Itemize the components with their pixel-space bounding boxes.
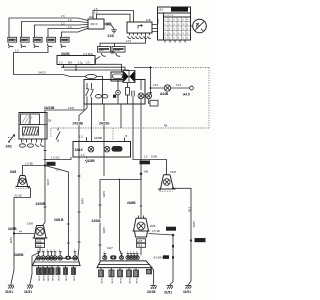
bulb B2 — [133, 216, 156, 238]
svg-text:4.5 SB: 4.5 SB — [152, 229, 160, 233]
auxiliary switch right of dimmer — [48, 119, 60, 143]
strip B dark pill bulb — [110, 255, 116, 259]
svg-text:24/2: 24/2 — [6, 145, 12, 149]
svg-text:31/51: 31/51 — [5, 290, 13, 294]
svg-text:24/5B: 24/5B — [8, 227, 17, 231]
svg-text:8: 8 — [174, 24, 175, 26]
wire from connector 3 to switch module pins — [35, 25, 89, 38]
svg-text:8: 8 — [183, 33, 184, 35]
svg-text:31/8B: 31/8B — [128, 278, 130, 284]
strip A bulb 3 — [46, 250, 50, 261]
svg-text:31/8B: 31/8B — [110, 278, 112, 284]
svg-text:S/SB: S/SB — [151, 155, 157, 159]
svg-text:24/8/B: 24/8/B — [14, 253, 24, 257]
svg-text:1/13B: 1/13B — [47, 39, 54, 42]
svg-text:1.5: 1.5 — [81, 153, 85, 157]
svg-text:8: 8 — [187, 20, 188, 22]
svg-text:31/5B: 31/5B — [9, 237, 12, 244]
strip A bulb 5 — [53, 250, 57, 261]
svg-text:1/48: 1/48 — [99, 48, 105, 52]
dimmer control arrow — [6, 135, 15, 149]
in-line connector 1/48 (D1) — [96, 47, 111, 64]
svg-text:8: 8 — [165, 29, 166, 31]
svg-text:31/8B: 31/8B — [51, 275, 53, 281]
svg-text:31/8B: 31/8B — [86, 159, 95, 163]
wire from relay to lamp feed junction — [134, 67, 151, 69]
svg-text:31/8B: 31/8B — [72, 275, 74, 281]
svg-text:1.5 SB: 1.5 SB — [25, 161, 33, 165]
svg-text:1.5: 1.5 — [15, 49, 19, 53]
RB lamp 2 — [104, 146, 110, 152]
splice on ground wire — [188, 207, 206, 242]
connector unit N (11B) — [127, 18, 152, 33]
svg-text:8: 8 — [174, 29, 175, 31]
svg-text:8: 8 — [183, 20, 184, 22]
svg-text:24/23B: 24/23B — [44, 106, 55, 110]
control module box — [84, 80, 145, 105]
strip A pin block 7 — [72, 266, 76, 282]
strip B pin block 1 — [99, 268, 104, 284]
svg-text:8: 8 — [165, 20, 166, 22]
svg-text:31/5B: 31/5B — [102, 227, 105, 234]
strip B bulb 2 — [119, 251, 123, 259]
wire to bulb B1 — [27, 179, 49, 226]
svg-text:15/1: 15/1 — [158, 8, 164, 12]
strip B pin block 4 — [127, 268, 132, 284]
diode bowtie symbol — [123, 71, 135, 83]
svg-text:1.5: 1.5 — [59, 61, 63, 65]
dimmer bottom pins — [20, 139, 45, 147]
fuse panel bottom pins — [165, 40, 185, 43]
wire 1.5 from module M to connector N (outer) — [93, 11, 134, 23]
bulb strip B rail — [97, 256, 166, 268]
ground G3 — [147, 286, 157, 294]
svg-text:A44B: A44B — [160, 92, 169, 96]
svg-text:7/10B: 7/10B — [61, 39, 68, 42]
junction splice 24/8 — [44, 162, 56, 167]
strip A pin block 3 — [46, 266, 50, 282]
svg-text:31/8: 31/8 — [108, 34, 114, 38]
wire 14.5 from connector N to in-line connectors — [100, 36, 146, 47]
svg-text:2.5: 2.5 — [86, 61, 90, 65]
svg-text:24/8.B: 24/8.B — [54, 218, 64, 222]
dimmer rheostat unit box — [19, 113, 47, 140]
B2 bottom terminals and wire to strip — [137, 239, 146, 255]
strip A bulb 4 — [49, 250, 53, 261]
svg-text:24/8/8: 24/8/8 — [92, 219, 101, 223]
svg-text:31/8B: 31/8B — [195, 238, 202, 242]
B1 ground wire to G2 — [30, 248, 40, 285]
strip A bulb 2 — [41, 250, 45, 261]
connector box 1/13B (C4) — [47, 37, 56, 48]
svg-text:8: 8 — [165, 24, 166, 26]
strip A bulb 7 — [73, 250, 77, 261]
svg-text:31/8B: 31/8B — [135, 278, 137, 284]
strip B bulb 4 — [129, 251, 133, 259]
module switch contact 2 — [90, 83, 93, 104]
svg-text:8: 8 — [169, 29, 170, 31]
strip A pin block 6 — [64, 266, 68, 282]
connector N bottom pins — [128, 33, 151, 38]
wire down to ground G4 — [163, 235, 174, 285]
svg-text:1.5: 1.5 — [68, 18, 72, 22]
svg-text:8: 8 — [187, 33, 188, 35]
fuse panel / central electrical unit — [156, 7, 190, 40]
svg-text:24/5: 24/5 — [36, 244, 42, 248]
svg-text:1.5: 1.5 — [79, 134, 83, 138]
ground G5 — [183, 285, 191, 294]
panel lamp symbol — [160, 85, 171, 96]
svg-text:24/8B: 24/8B — [113, 148, 120, 151]
strip A bulb 1 — [36, 250, 40, 261]
svg-text:24/8B: 24/8B — [127, 201, 136, 205]
label 24/23B — [73, 121, 85, 242]
wire module to panel dimmer 24/23B — [44, 104, 84, 113]
bulb pair on module right — [146, 88, 152, 104]
module junction blob — [113, 95, 116, 98]
svg-text:11B: 11B — [146, 18, 151, 22]
branch to lamp box RB — [44, 155, 72, 159]
svg-text:8: 8 — [183, 24, 184, 26]
wires from N right pins to fuse panel — [152, 25, 158, 32]
svg-text:1/4B: 1/4B — [8, 39, 13, 42]
module lamp right — [138, 80, 144, 105]
dashed linkage inside dimmer — [22, 136, 24, 147]
svg-text:24/8: 24/8 — [167, 227, 173, 231]
wire down to ground G1 — [11, 234, 14, 285]
bus wire L3 — [64, 65, 129, 73]
svg-text:8: 8 — [169, 38, 170, 40]
L2 wire to ground G5 — [173, 187, 192, 285]
svg-text:8: 8 — [174, 38, 175, 40]
svg-text:19/8: 19/8 — [27, 222, 33, 226]
svg-text:4B: 4B — [164, 124, 167, 128]
ground G4 — [164, 285, 173, 294]
svg-text:8: 8 — [165, 38, 166, 40]
svg-text:8: 8 — [169, 24, 170, 26]
svg-text:1.5: 1.5 — [144, 155, 148, 159]
svg-text:8: 8 — [178, 33, 179, 35]
svg-text:8: 8 — [169, 33, 170, 35]
svg-text:24/23B: 24/23B — [73, 122, 84, 126]
svg-text:24/2: 24/2 — [156, 19, 158, 24]
svg-text:8: 8 — [169, 20, 170, 22]
strip B pin block 2 — [109, 268, 114, 284]
wire gauge labels — [61, 14, 72, 29]
glovebox lamp L1 — [10, 170, 30, 189]
bulb strip A rail — [14, 253, 80, 266]
wire labels 1.5 — [94, 7, 98, 15]
svg-text:8: 8 — [183, 29, 184, 31]
svg-text:1.5: 1.5 — [56, 168, 60, 172]
svg-text:8: 8 — [178, 20, 179, 22]
strip A bulb 6 — [58, 250, 62, 261]
svg-text:19/8: 19/8 — [150, 224, 156, 228]
svg-text:31/8B: 31/8B — [37, 275, 39, 281]
ashtray bulb B1 — [33, 226, 48, 239]
module lamp small — [116, 79, 121, 105]
svg-text:24/8B: 24/8B — [94, 136, 102, 140]
svg-text:110: 110 — [89, 15, 94, 19]
svg-text:31/8B: 31/8B — [46, 275, 48, 281]
svg-text:1.5: 1.5 — [68, 25, 72, 29]
ground G2 — [24, 285, 33, 294]
svg-text:24/5: 24/5 — [137, 239, 143, 243]
appendix box below module right — [150, 100, 158, 106]
svg-text:2B: 2B — [48, 119, 51, 123]
svg-text:31/8B: 31/8B — [42, 275, 44, 281]
svg-text:1.5: 1.5 — [94, 11, 98, 15]
svg-text:8: 8 — [178, 38, 179, 40]
connector box 7/10B (C5) — [60, 37, 69, 48]
B1 terminal labels — [36, 239, 45, 248]
RB bottom pins + ground label — [85, 157, 99, 163]
branch diagonal to strip A feed — [45, 166, 70, 256]
relay sub-box — [111, 72, 134, 81]
feed wire 19/7 to bulb strip B — [107, 179, 121, 253]
lamp feed wire down — [150, 68, 152, 88]
svg-text:24/1B: 24/1B — [147, 290, 156, 294]
module internal pills — [96, 94, 108, 98]
wire from connector 4 to switch module pins — [48, 27, 88, 38]
svg-text:8: 8 — [174, 20, 175, 22]
svg-text:74/8: 74/8 — [170, 170, 176, 174]
svg-text:14.5: 14.5 — [126, 39, 132, 43]
panel lamp wire 14.5 — [151, 83, 190, 88]
module capacitor — [132, 91, 134, 105]
RB lamp 1 — [88, 146, 94, 152]
wire module pin to lamp box — [91, 104, 93, 142]
strip A dark pill bulb — [65, 256, 71, 260]
svg-text:31/8B: 31/8B — [100, 278, 102, 284]
svg-text:B: B — [126, 134, 128, 138]
dashed drop to lamp unit — [112, 128, 114, 140]
svg-text:31/8B: 31/8B — [57, 275, 59, 281]
dashed linkage right vertical — [208, 68, 210, 129]
wire module pin to dashed link — [120, 104, 122, 128]
bus wire L2 — [61, 65, 125, 73]
svg-text:24/5: 24/5 — [137, 244, 143, 248]
junction dot — [150, 87, 152, 89]
svg-text:31/8B: 31/8B — [64, 275, 66, 281]
bus junction dots — [63, 63, 83, 71]
svg-text:1.5: 1.5 — [61, 21, 65, 25]
svg-text:B/S: B/S — [68, 61, 72, 65]
svg-text:54/8: 54/8 — [10, 170, 16, 174]
svg-text:24 58/38: 24 58/38 — [154, 256, 166, 260]
svg-text:1.5B: 1.5B — [188, 207, 191, 212]
strip B right end ground wire — [150, 268, 154, 286]
svg-text:8: 8 — [174, 33, 175, 35]
svg-text:FUSES: FUSES — [172, 8, 181, 12]
svg-text:14.5: 14.5 — [176, 83, 182, 87]
svg-text:24/5B: 24/5B — [46, 179, 49, 186]
dashed drop to rheostat — [50, 128, 52, 137]
svg-text:14.5: 14.5 — [153, 83, 159, 87]
strip A pin block 5 — [56, 266, 60, 282]
ground G1 — [5, 285, 14, 294]
linkage junction mark — [149, 66, 152, 69]
connector box 17/1B (C3) — [33, 37, 42, 48]
wire module pin 24/23G down — [99, 104, 111, 176]
svg-text:3B: 3B — [111, 51, 116, 55]
wire from connector C4 looping left and to control module (L4) — [14, 48, 86, 77]
open connector terminal — [183, 86, 193, 96]
svg-text:17/1B: 17/1B — [34, 39, 41, 42]
splice dot to bulb B1 — [13, 230, 34, 235]
strip B pin block 3 — [118, 268, 123, 284]
svg-text:8: 8 — [187, 29, 188, 31]
strip B bulb 1 — [103, 251, 107, 259]
wire from connector 2 to switch module pins — [22, 22, 89, 38]
svg-text:1 3 5 7 9: 1 3 5 7 9 — [164, 15, 173, 17]
svg-text:24/15: 24/15 — [75, 148, 83, 152]
strip A pin block 4 — [50, 266, 54, 282]
strip B bulb 5 — [132, 251, 136, 259]
B2 right wire to splice 24/8 — [149, 227, 177, 237]
labels on wire x100 — [92, 191, 105, 245]
branch wire to bulb strip feeds — [100, 173, 141, 261]
svg-text:A4.5: A4.5 — [183, 93, 190, 97]
svg-text:31/51: 31/51 — [164, 290, 172, 294]
svg-text:24/23: 24/23 — [38, 71, 46, 75]
in-line connector 1/10B (D2) — [112, 47, 125, 57]
dashed linkage horizontal top — [153, 67, 210, 69]
svg-text:24/8: 24/8 — [47, 162, 53, 166]
svg-text:31/5B: 31/5B — [102, 191, 105, 198]
connector box 1/4B (C1) — [8, 37, 17, 48]
rheostat hatched element — [23, 127, 39, 135]
module resistor — [126, 83, 130, 105]
L1 ground wire — [8, 187, 31, 244]
module switch contact 1 — [86, 83, 89, 104]
svg-text:31/5B: 31/5B — [81, 198, 84, 205]
wire module pin to bulb B2 — [127, 104, 148, 218]
svg-text:8: 8 — [178, 24, 179, 26]
svg-text:14B: 14B — [144, 170, 149, 174]
svg-text:8: 8 — [183, 38, 184, 40]
courtesy lamp L2 — [158, 170, 176, 191]
svg-text:24/23G: 24/23G — [99, 122, 110, 126]
svg-text:1.5: 1.5 — [61, 14, 65, 18]
strip B bulb 3 — [126, 251, 130, 259]
wire module pin to courtesy lamp L2 — [133, 104, 167, 175]
ground 31/8 below module M — [108, 29, 117, 38]
clock symbol — [193, 19, 207, 33]
in-line connector oval on wire L4 — [86, 74, 103, 104]
svg-text:24/5/B: 24/5/B — [36, 202, 46, 206]
strip B bulb 6 — [135, 251, 139, 259]
wire 1.5 from module M to connector N (inner) — [97, 14, 131, 22]
svg-text:31/5B: 31/5B — [192, 221, 195, 228]
svg-text:31/51: 31/51 — [183, 290, 191, 294]
svg-text:1/8B: 1/8B — [21, 39, 26, 42]
strip A pin block 1 — [37, 266, 41, 282]
junction box 24/2B — [57, 52, 95, 65]
RB dark pill label — [112, 146, 123, 152]
svg-text:31 SB: 31 SB — [15, 194, 22, 198]
svg-text:8: 8 — [187, 24, 188, 26]
wire module pin to main vertical 24/23B — [78, 104, 87, 258]
svg-text:8: 8 — [165, 33, 166, 35]
connector box 1/8B (C2) — [20, 37, 29, 48]
connector pair on module M output — [104, 23, 114, 29]
dashed linkage lower horizontal — [51, 127, 209, 129]
svg-text:8: 8 — [187, 38, 188, 40]
bus wire L1 — [95, 64, 122, 72]
main vertical wire 24/23B left — [44, 113, 47, 223]
svg-text:19/7: 19/7 — [107, 246, 113, 250]
wire from connector 1 to switch module pins — [9, 18, 88, 38]
strip A pin block 2 — [41, 266, 45, 282]
wire fuse panel to clock — [191, 25, 193, 27]
svg-text:24/5: 24/5 — [36, 239, 42, 243]
light switch module M (110) — [88, 15, 104, 29]
strip B pin block 5 — [134, 268, 139, 284]
svg-text:31/8B: 31/8B — [119, 278, 121, 284]
strip B right end pin block — [147, 269, 152, 274]
svg-text:1.5 S/S: 1.5 S/S — [51, 155, 60, 159]
lamp cluster box RB — [73, 142, 131, 158]
svg-text:31/51: 31/51 — [24, 290, 32, 294]
branch left to glovebox lamp L1 — [23, 161, 46, 175]
svg-text:8: 8 — [178, 29, 179, 31]
svg-text:14/8: 14/8 — [68, 106, 74, 110]
wire from connector 5 to switch module pins — [62, 28, 89, 37]
svg-text:1.5: 1.5 — [94, 7, 98, 11]
RB top pin stubs — [79, 134, 128, 142]
